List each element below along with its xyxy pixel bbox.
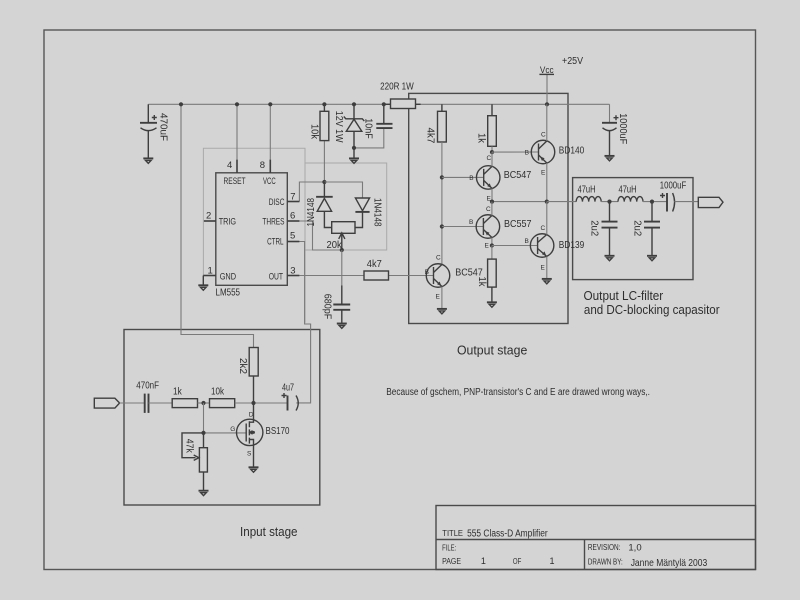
svg-text:BC557: BC557 — [504, 219, 532, 230]
wire 4k7 node down to BC557 base — [441, 177, 443, 226]
wire cap to output terminal — [675, 201, 699, 203]
svg-text:B: B — [469, 219, 473, 226]
svg-text:1k: 1k — [173, 387, 183, 398]
svg-text:10k: 10k — [309, 124, 320, 140]
ground below BC547 lower — [437, 309, 447, 314]
wire wiper node down across OUT to 680pF — [341, 250, 343, 285]
node rail-12Vfeed — [179, 102, 183, 106]
svg-text:Output stage: Output stage — [457, 343, 527, 358]
node BS170 drain — [251, 401, 255, 405]
revision row — [588, 542, 642, 553]
svg-text:1,0: 1,0 — [628, 542, 641, 553]
svg-text:DRAWN BY:: DRAWN BY: — [588, 558, 623, 567]
node output-BD140 — [545, 200, 549, 204]
capacitor 470nF — [136, 381, 159, 413]
pin 8 VCC — [260, 160, 276, 187]
ground below 680pF — [337, 324, 347, 329]
svg-text:B: B — [469, 175, 473, 182]
svg-text:47uH: 47uH — [619, 185, 637, 196]
svg-text:Output LC-filter: Output LC-filter — [584, 289, 664, 303]
svg-text:GND: GND — [220, 271, 237, 281]
svg-text:OUT: OUT — [269, 271, 284, 281]
pin 7 DISC — [269, 192, 300, 207]
svg-text:10k: 10k — [211, 387, 225, 398]
svg-text:BS170: BS170 — [266, 426, 290, 437]
potentiometer 20k — [327, 222, 356, 251]
svg-text:E: E — [541, 265, 546, 272]
svg-text:THRES: THRES — [262, 217, 284, 227]
svg-text:LM555: LM555 — [216, 288, 241, 299]
capacitor 2u2 second — [631, 202, 660, 256]
note text about gschem PNP symbols — [386, 387, 650, 398]
wire BD140 emitter to output node — [546, 163, 548, 202]
trimmer 47k — [182, 433, 207, 491]
wire BD139 emitter to ground — [546, 257, 548, 279]
input stage box — [124, 330, 320, 506]
svg-text:47k: 47k — [184, 439, 195, 454]
svg-text:Because of gschem, PNP-transis: Because of gschem, PNP-transistor's C an… — [386, 387, 650, 398]
inductor 47uH second — [618, 185, 643, 202]
pin 2 TRIG — [204, 211, 236, 227]
svg-text:4u7: 4u7 — [282, 382, 294, 393]
svg-text:1: 1 — [481, 556, 486, 566]
+25V label — [562, 56, 583, 67]
ground at 555 pin 1 — [198, 276, 208, 291]
ground below 47k — [199, 491, 209, 496]
wire gate — [204, 432, 247, 434]
wire 10k bottom to DISC node — [323, 141, 325, 182]
node rail-10nF — [382, 102, 386, 106]
pin 6 THRES — [262, 211, 299, 227]
svg-text:VCC: VCC — [263, 176, 276, 186]
svg-text:PAGE: PAGE — [442, 557, 461, 566]
wire THRES to pot wiper node — [299, 221, 341, 250]
op-amp U1 LM555 body — [216, 173, 288, 299]
node input bias — [201, 401, 205, 405]
capacitor 680pF — [322, 285, 351, 323]
embedded-symbol outline around diode/pot network — [305, 163, 387, 250]
node rail-RESET — [235, 102, 239, 106]
node gate-47k — [201, 431, 205, 435]
svg-text:C: C — [487, 155, 492, 162]
resistor 10k (input) — [210, 387, 235, 408]
wire BC557 base node down to lower BC547 collector — [441, 227, 443, 265]
svg-text:C: C — [486, 206, 491, 213]
svg-text:4k7: 4k7 — [425, 128, 436, 144]
wire rail into 1000uF reservoir — [609, 104, 611, 123]
wire BC547 upper collector to 1k — [491, 152, 493, 166]
wire output node to LC filter — [547, 201, 576, 203]
output stage box — [409, 93, 568, 323]
resistor 1k (lower) — [476, 246, 496, 303]
node rail-zener — [352, 102, 356, 106]
capacitor 10nF — [362, 104, 392, 139]
resistor 4k7 (555 out) — [364, 259, 389, 280]
svg-text:Input stage: Input stage — [240, 524, 298, 539]
svg-text:E: E — [485, 243, 490, 250]
wire output node — [492, 201, 547, 203]
ground below BS170 — [249, 467, 259, 472]
node pot wiper — [340, 248, 344, 252]
svg-text:555 Class-D Amplifier: 555 Class-D Amplifier — [467, 529, 548, 540]
transistor Q6 BS170 — [230, 403, 289, 467]
transistor Q1 BC547 upper — [469, 155, 531, 203]
wire VCC pin to rail — [269, 104, 271, 159]
wire +12V rail left of 220R — [148, 103, 390, 105]
svg-text:1: 1 — [550, 556, 555, 566]
svg-text:BC547: BC547 — [455, 268, 483, 279]
pin 4 RESET — [224, 160, 246, 187]
svg-text:BD140: BD140 — [559, 146, 585, 157]
svg-text:C: C — [541, 225, 546, 232]
svg-text:1000uF: 1000uF — [617, 113, 628, 144]
pin 3 OUT — [269, 266, 300, 282]
ground below 2u2 first — [605, 256, 615, 261]
svg-text:220R 1W: 220R 1W — [380, 82, 414, 93]
ground below BD139 — [542, 279, 552, 284]
svg-text:D: D — [249, 412, 254, 419]
wire BC547 lower emitter to ground — [441, 287, 443, 309]
resistor 1k (upper) — [476, 104, 497, 152]
page row — [442, 556, 554, 566]
title block frame — [436, 506, 756, 570]
node DISC-diodes — [322, 180, 326, 184]
svg-text:OF: OF — [513, 557, 521, 566]
svg-text:RESET: RESET — [224, 176, 246, 186]
wire RESET pin to rail — [236, 104, 238, 159]
wire BD140 base — [492, 151, 539, 153]
svg-text:680pF: 680pF — [322, 294, 333, 320]
node 4k7-BC547 base — [440, 175, 444, 179]
wire BD139 base — [492, 245, 538, 247]
wire BC557 base — [442, 226, 484, 228]
svg-text:B: B — [525, 238, 529, 245]
node BC557 base — [440, 224, 444, 228]
ground below zener — [349, 148, 359, 163]
svg-text:20k: 20k — [327, 240, 343, 251]
svg-text:BD139: BD139 — [559, 240, 585, 251]
output LC-filter box — [573, 178, 693, 280]
transistor Q3 BC557 — [469, 206, 532, 250]
Output LC-filter caption — [584, 289, 720, 317]
ground below 470uF — [143, 158, 153, 163]
svg-text:4k7: 4k7 — [367, 259, 382, 270]
wire 470nF to 1k — [149, 402, 173, 404]
ground below 1000uF — [605, 156, 615, 161]
svg-text:1k: 1k — [476, 133, 487, 144]
wire rail to Vcc symbol — [546, 74, 548, 104]
Input stage caption — [240, 524, 298, 539]
resistor 220R 1W — [380, 82, 421, 109]
svg-text:2k2: 2k2 — [237, 358, 248, 374]
node BD139 base — [490, 243, 494, 247]
svg-text:CTRL: CTRL — [267, 237, 283, 247]
svg-text:5: 5 — [290, 231, 295, 242]
wire 12V feed down to input stage 2k2 — [181, 104, 254, 347]
zener diode 12V 1W — [333, 104, 364, 148]
node zener-ground — [352, 146, 356, 150]
file row — [442, 544, 456, 553]
node LC-1 — [607, 200, 611, 204]
svg-text:2u2: 2u2 — [631, 220, 642, 236]
node rail-VCC — [268, 102, 272, 106]
wire +25V rail right of 220R — [416, 103, 610, 105]
embedded-symbol outline around LM555 — [203, 148, 305, 322]
svg-text:REVISION:: REVISION: — [588, 543, 621, 552]
transistor Q5 BC547 lower — [425, 255, 483, 301]
wire 10k to drain node — [235, 402, 288, 404]
resistor 4k7 (output stage) — [425, 104, 447, 177]
wire BD139 collector to output node — [546, 202, 548, 235]
svg-text:1N4148: 1N4148 — [306, 198, 317, 227]
drawn-by row — [588, 558, 708, 569]
capacitor 1000uF reservoir — [602, 113, 628, 156]
wire zener bottom to 10nF bottom — [354, 128, 384, 148]
svg-text:4: 4 — [227, 160, 232, 171]
svg-text:TITLE: TITLE — [442, 529, 463, 538]
Output stage caption — [457, 343, 527, 358]
svg-text:1: 1 — [208, 266, 213, 277]
title row — [442, 529, 548, 540]
svg-text:+25V: +25V — [562, 56, 583, 67]
ground below 1k lower — [487, 302, 497, 307]
svg-text:47uH: 47uH — [578, 185, 596, 196]
svg-text:3: 3 — [290, 266, 295, 277]
transistor Q2 BD140 — [525, 132, 585, 177]
capacitor 2u2 first — [588, 202, 617, 256]
svg-text:Janne Mäntylä 2003: Janne Mäntylä 2003 — [631, 558, 708, 569]
wire BC557 emitter to BD139 base node — [491, 238, 493, 246]
svg-text:6: 6 — [290, 211, 295, 222]
wire BC547 upper emitter to output node — [491, 188, 493, 201]
inductor 47uH first — [576, 185, 601, 202]
wire 1k to 10k — [198, 402, 210, 404]
wire BD140 collector to rail — [546, 104, 548, 141]
wire BC547 upper base — [442, 176, 484, 178]
node LC-2 — [650, 200, 654, 204]
Vcc symbol — [539, 65, 554, 76]
svg-text:S: S — [247, 451, 252, 458]
wire input terminal to 470nF — [120, 402, 145, 404]
pin 1 GND — [203, 266, 236, 282]
capacitor 470uF — [140, 104, 169, 158]
node rail-10k — [322, 102, 326, 106]
wire to DC blocking cap — [643, 201, 667, 203]
svg-text:2: 2 — [206, 211, 211, 222]
wire between inductors — [601, 201, 618, 203]
resistor 1k (input) — [172, 387, 197, 408]
transistor Q4 BD139 — [525, 225, 585, 272]
wire OUT to 4k7 — [299, 275, 364, 277]
node 1k-BD140 base — [490, 150, 494, 154]
svg-text:FILE:: FILE: — [442, 544, 456, 553]
svg-text:TRIG: TRIG — [219, 217, 236, 227]
svg-text:12V 1W: 12V 1W — [333, 111, 344, 143]
svg-text:1000uF: 1000uF — [660, 180, 686, 191]
wire diode node to right diode — [324, 182, 362, 198]
svg-text:BC547: BC547 — [504, 170, 532, 181]
wire CTRL down to 4u7 — [296, 242, 310, 403]
resistor 2k2 — [237, 348, 258, 404]
wire DISC to diode node — [299, 182, 324, 202]
wire BC557 collector to output node — [491, 202, 493, 216]
resistor 10k (555 supply) — [309, 104, 329, 140]
capacitor 4u7 — [282, 382, 299, 410]
output terminal — [698, 197, 723, 207]
svg-text:2u2: 2u2 — [588, 220, 599, 236]
svg-text:C: C — [541, 132, 546, 139]
svg-text:8: 8 — [260, 160, 265, 171]
svg-text:B: B — [525, 150, 529, 157]
capacitor 1000uF DC blocking — [660, 180, 686, 211]
svg-text:470uF: 470uF — [158, 113, 169, 141]
svg-text:DISC: DISC — [269, 197, 285, 207]
svg-text:E: E — [436, 294, 441, 301]
svg-text:10nF: 10nF — [362, 118, 373, 139]
input terminal — [94, 398, 119, 408]
svg-text:and DC-blocking capasitor: and DC-blocking capasitor — [584, 303, 720, 317]
node output-BC547 — [490, 200, 494, 204]
svg-text:C: C — [436, 255, 441, 262]
pin 5 CTRL — [267, 231, 299, 247]
svg-text:E: E — [541, 170, 546, 177]
diode 1N4148 left — [306, 182, 333, 228]
diode 1N4148 right — [355, 198, 382, 228]
ground below 2u2 second — [647, 256, 657, 261]
svg-text:B: B — [425, 269, 429, 276]
wire 4k7 to output stage base — [389, 275, 434, 277]
svg-text:G: G — [230, 426, 235, 433]
svg-text:1N4148: 1N4148 — [371, 198, 382, 227]
svg-text:7: 7 — [290, 192, 295, 203]
node rail-Vcc — [545, 102, 549, 106]
svg-text:470nF: 470nF — [136, 381, 159, 392]
wire gate node down — [203, 403, 205, 433]
